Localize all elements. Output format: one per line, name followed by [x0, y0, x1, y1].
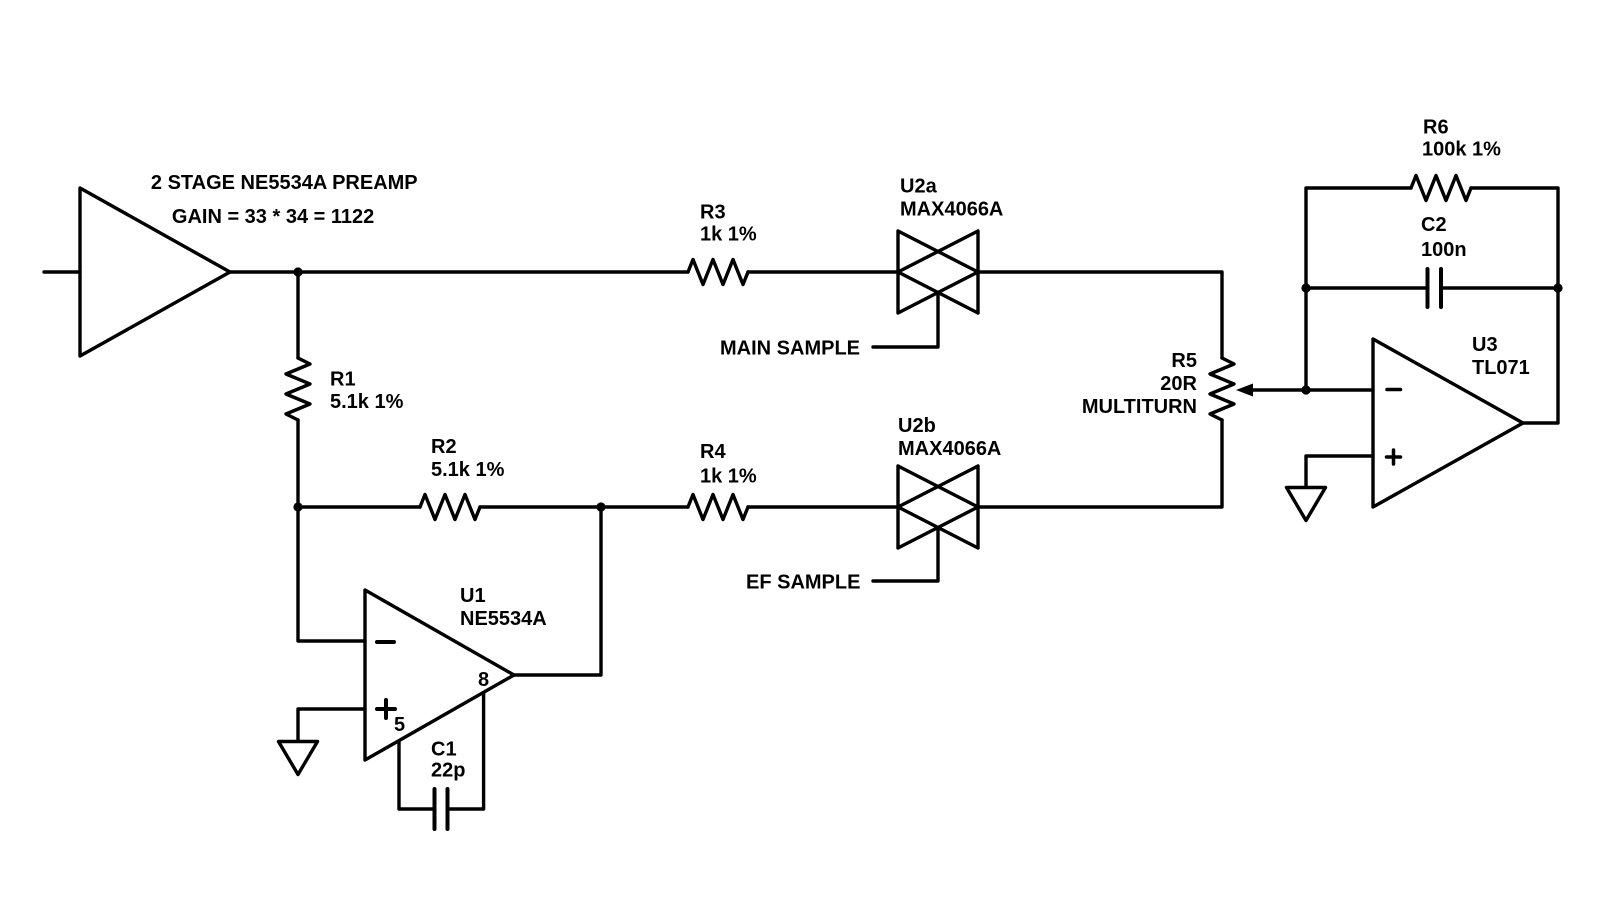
svg-text:5.1k 1%: 5.1k 1% [431, 459, 505, 481]
svg-text:NE5534A: NE5534A [460, 608, 547, 630]
svg-text:1k 1%: 1k 1% [700, 466, 757, 488]
svg-text:8: 8 [478, 669, 489, 691]
svg-text:5: 5 [394, 714, 405, 736]
svg-text:R5: R5 [1171, 350, 1197, 372]
svg-text:R3: R3 [700, 202, 726, 224]
svg-text:TL071: TL071 [1472, 357, 1530, 379]
svg-text:20R: 20R [1160, 373, 1197, 395]
svg-text:R4: R4 [700, 441, 726, 463]
svg-text:U2a: U2a [900, 176, 938, 198]
svg-text:MAX4066A: MAX4066A [898, 438, 1001, 460]
svg-text:C1: C1 [431, 739, 457, 761]
svg-text:R1: R1 [330, 369, 356, 391]
svg-text:2 STAGE NE5534A PREAMP: 2 STAGE NE5534A PREAMP [151, 172, 418, 194]
svg-text:R2: R2 [431, 436, 457, 458]
svg-text:MAX4066A: MAX4066A [900, 199, 1003, 221]
svg-text:R6: R6 [1423, 117, 1449, 139]
svg-text:U1: U1 [460, 585, 486, 607]
svg-text:5.1k 1%: 5.1k 1% [330, 391, 404, 413]
svg-text:U3: U3 [1472, 334, 1498, 356]
svg-text:100k 1%: 100k 1% [1422, 139, 1501, 161]
svg-text:1k 1%: 1k 1% [700, 224, 757, 246]
svg-text:22p: 22p [431, 760, 465, 782]
svg-text:100n: 100n [1421, 239, 1467, 261]
svg-text:U2b: U2b [898, 415, 936, 437]
svg-text:C2: C2 [1421, 214, 1447, 236]
svg-text:MULTITURN: MULTITURN [1082, 396, 1197, 418]
svg-text:EF SAMPLE: EF SAMPLE [746, 572, 860, 594]
svg-text:MAIN SAMPLE: MAIN SAMPLE [720, 338, 860, 360]
svg-text:GAIN = 33 * 34 = 1122: GAIN = 33 * 34 = 1122 [172, 206, 374, 228]
